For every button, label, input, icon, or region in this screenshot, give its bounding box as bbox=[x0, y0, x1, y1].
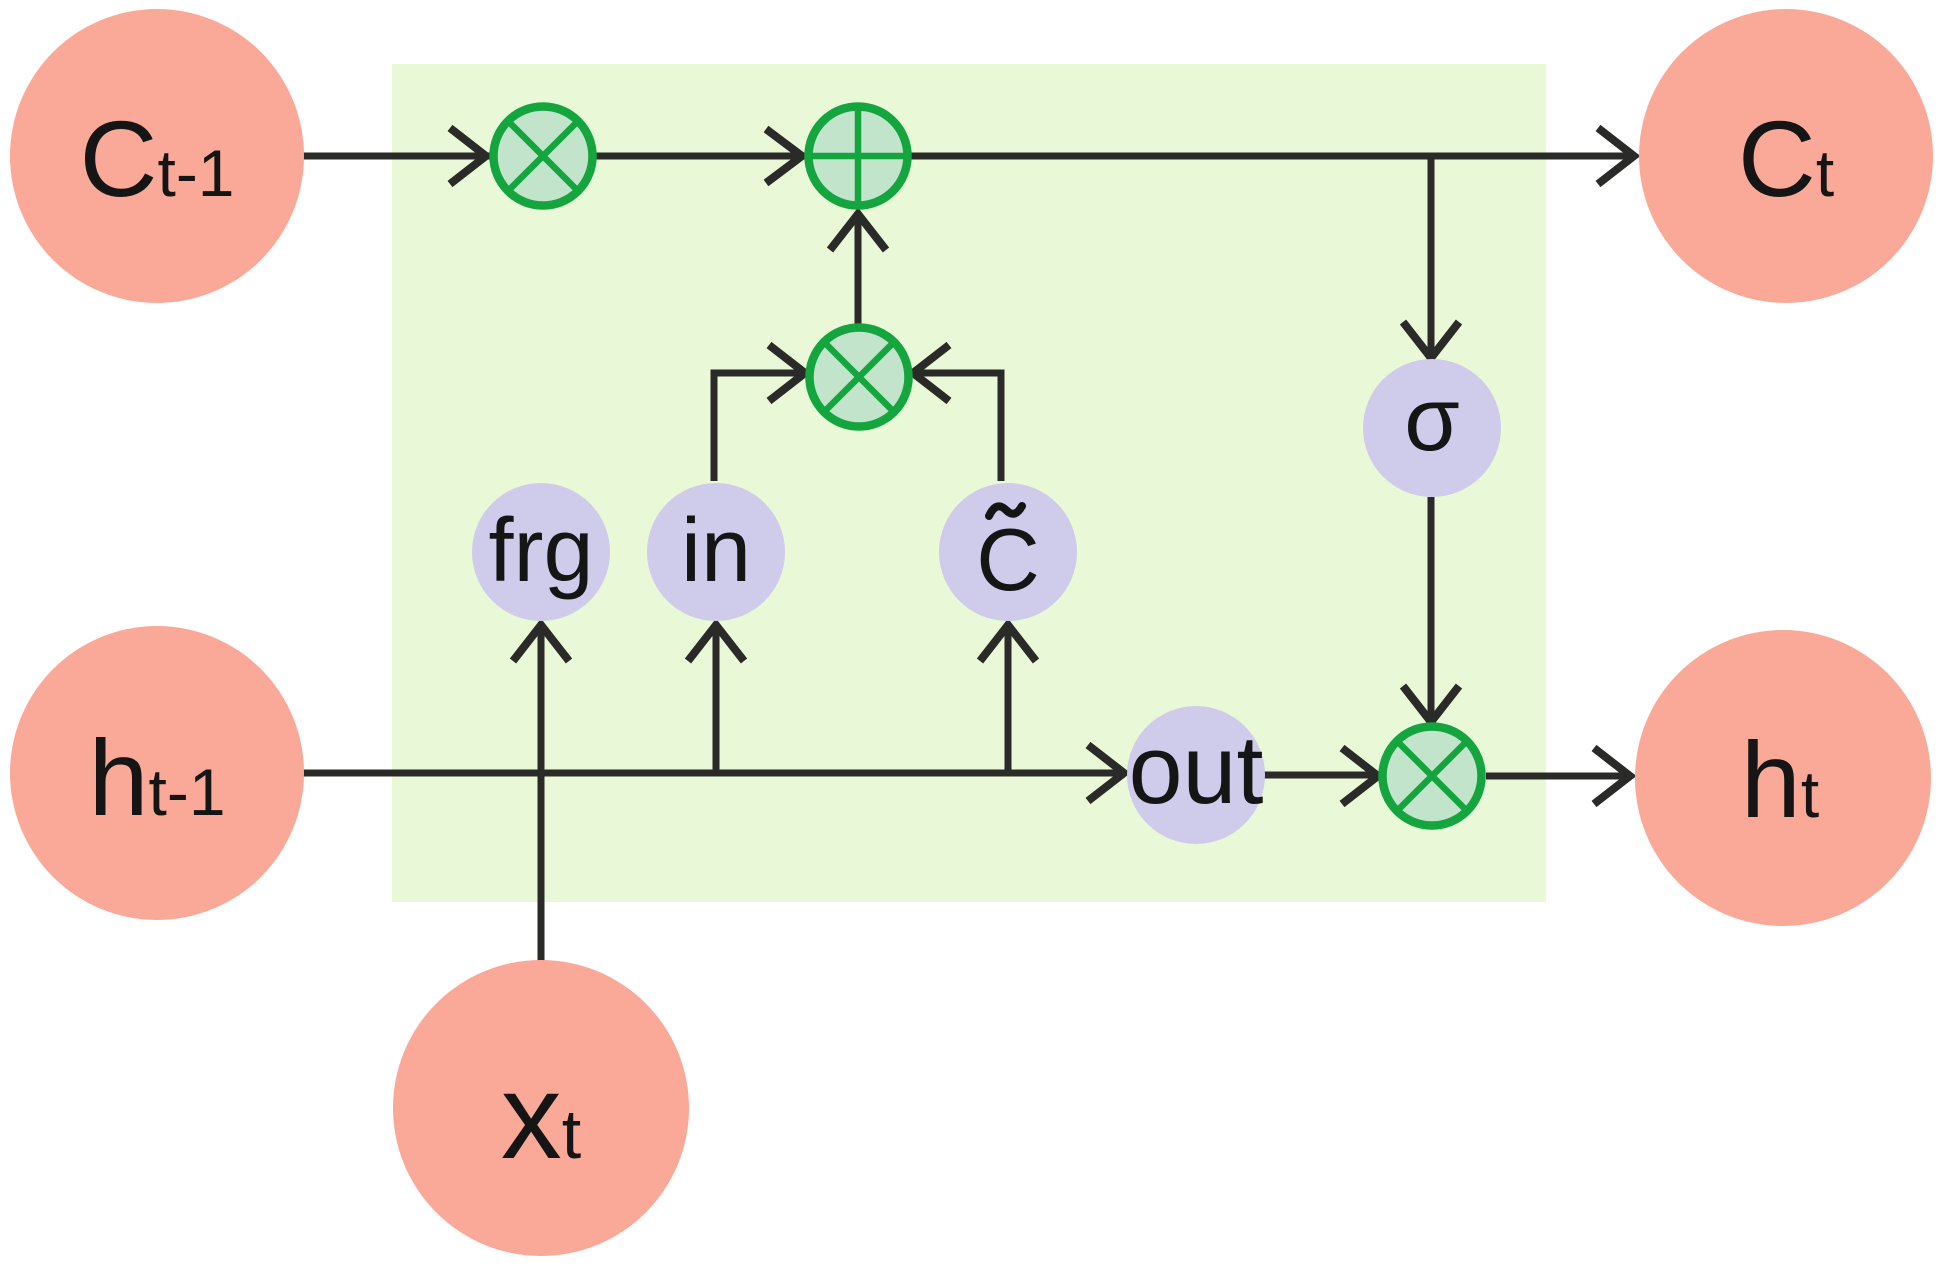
gate candidate C-tilde bbox=[939, 483, 1077, 621]
wire: sigma to multiply-3 bbox=[1428, 497, 1435, 720]
gate sigma bbox=[1363, 359, 1501, 497]
wire: multiply-2 up to add bbox=[855, 217, 862, 330]
arrowhead into ht bbox=[1594, 748, 1630, 804]
LSTM cell body (green rectangle) bbox=[392, 64, 1546, 902]
arrowhead into multiply-3 from sigma bbox=[1403, 686, 1459, 722]
arrowhead into multiply-3 from out bbox=[1342, 748, 1378, 804]
arrowhead into multiply-1 bbox=[450, 128, 486, 184]
wire: C-line from Ct-1 to Ct bbox=[300, 153, 1634, 160]
wire: h-line up to candidate bbox=[1005, 626, 1012, 773]
arrowhead into Ct bbox=[1598, 128, 1634, 184]
arrowhead into add from below bbox=[830, 214, 886, 250]
add op bbox=[809, 107, 908, 206]
wire: out to multiply-3 bbox=[1264, 772, 1376, 779]
svg-text:frg: frg bbox=[488, 501, 593, 601]
arrowhead into candidate bbox=[980, 625, 1036, 661]
multiply op 3 (output) bbox=[1383, 727, 1482, 826]
svg-text:out: out bbox=[1129, 715, 1264, 824]
wire: h-line from ht-1 to out bbox=[300, 770, 1120, 777]
wire: multiply-3 to ht bbox=[1486, 773, 1628, 780]
wire: h-line up to in bbox=[713, 626, 720, 773]
svg-text:σ: σ bbox=[1404, 370, 1460, 470]
arrowhead into frg bbox=[513, 625, 569, 661]
svg-text:C: C bbox=[976, 510, 1040, 609]
arrowhead into multiply-2 from right bbox=[913, 345, 949, 401]
gate out bbox=[1127, 706, 1265, 844]
node ht bbox=[1635, 630, 1931, 926]
gate frg bbox=[472, 483, 610, 621]
arrowhead into add bbox=[766, 129, 802, 183]
wire: xt up to frg bbox=[538, 626, 545, 961]
svg-text:in: in bbox=[681, 501, 751, 601]
node Ct-1 bbox=[10, 9, 304, 303]
node xt bbox=[393, 960, 689, 1256]
gate in bbox=[647, 483, 785, 621]
wire: in-gate elbow to multiply-2 bbox=[714, 373, 802, 481]
node Ct bbox=[1639, 9, 1933, 303]
wire: candidate elbow to multiply-2 bbox=[915, 373, 1001, 481]
wire: branch down from C-line to sigma bbox=[1428, 156, 1435, 356]
node ht-1 bbox=[10, 626, 304, 920]
multiply op 1 (forget) bbox=[494, 107, 593, 206]
multiply op 2 (input) bbox=[810, 328, 909, 427]
arrowhead into sigma bbox=[1403, 322, 1459, 358]
arrowhead into multiply-2 from left bbox=[769, 345, 805, 401]
arrowhead into out bbox=[1088, 745, 1124, 801]
arrowhead into in bbox=[688, 625, 744, 661]
